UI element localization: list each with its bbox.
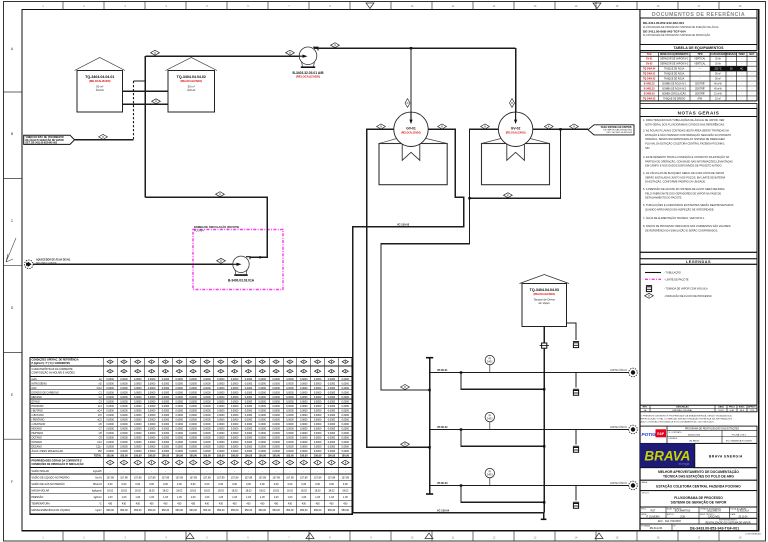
svg-text:0,00: 0,00 bbox=[246, 483, 251, 486]
svg-text:DE-3411.00-852-942-002-001: DE-3411.00-852-942-002-001 bbox=[643, 21, 684, 25]
svg-text:0,0000: 0,0000 bbox=[162, 387, 170, 390]
svg-text:0,0000: 0,0000 bbox=[272, 428, 280, 431]
svg-text:0,0000: 0,0000 bbox=[328, 428, 336, 431]
svg-text:430: 430 bbox=[274, 503, 279, 506]
svg-text:0,0000: 0,0000 bbox=[148, 400, 156, 403]
svg-text:0,0000: 0,0000 bbox=[286, 405, 294, 408]
svg-text:0,0000: 0,0000 bbox=[314, 396, 322, 399]
svg-text:1,03: 1,03 bbox=[205, 496, 210, 499]
condensate seal loop 02 bbox=[461, 430, 544, 447]
svg-text:OCTANO: OCTANO bbox=[32, 437, 42, 440]
svg-text:0,0000: 0,0000 bbox=[286, 441, 294, 444]
svg-text:MSm³/d: MSm³/d bbox=[93, 483, 102, 486]
tank TQ-3404.04.04.02 bbox=[166, 58, 218, 71]
svg-text:0,0000: 0,0000 bbox=[189, 441, 197, 444]
svg-text:PM: PM bbox=[98, 450, 102, 453]
svg-text:0,0000: 0,0000 bbox=[342, 446, 350, 449]
svg-text:18,02: 18,02 bbox=[176, 490, 183, 493]
svg-text:DET. DE-3411.00-853-943: DET. DE-3411.00-853-943 bbox=[606, 132, 632, 134]
svg-text:061234567-8: 061234567-8 bbox=[707, 511, 721, 513]
reference documents box bbox=[640, 10, 757, 19]
svg-text:3401: 3401 bbox=[487, 360, 493, 364]
svg-text:CTM: CTM bbox=[750, 410, 755, 412]
svg-text:0,0000: 0,0000 bbox=[120, 414, 128, 417]
svg-text:LEGENDAS: LEGENDAS bbox=[686, 260, 711, 264]
svg-text:0,0000: 0,0000 bbox=[106, 423, 114, 426]
svg-text:0,0000: 0,0000 bbox=[148, 387, 156, 390]
tank TQ-3404.04.04.01 bbox=[75, 58, 126, 71]
svg-text:0,0000: 0,0000 bbox=[176, 423, 184, 426]
svg-text:950,00: 950,00 bbox=[148, 509, 156, 512]
svg-text:0,0000: 0,0000 bbox=[217, 391, 225, 394]
svg-text:0,0000: 0,0000 bbox=[328, 400, 336, 403]
svg-text:APROV.: APROV. bbox=[748, 406, 756, 409]
svg-text:0,0000: 0,0000 bbox=[120, 419, 128, 422]
svg-text:TANQUE DE ÁGUA: TANQUE DE ÁGUA bbox=[664, 77, 685, 80]
composition data table bbox=[30, 358, 352, 515]
svg-text:DESCRIÇÃO: DESCRIÇÃO bbox=[676, 406, 689, 409]
svg-text:ESTAÇÃO COLETORA CENTRAL FAZEN: ESTAÇÃO COLETORA CENTRAL FAZENDA POCINHO bbox=[656, 483, 741, 488]
svg-text:0,0000: 0,0000 bbox=[328, 423, 336, 426]
svg-text:0,00: 0,00 bbox=[135, 483, 140, 486]
svg-text:ETANO: ETANO bbox=[32, 400, 40, 403]
left margin zone labels bbox=[4, 91, 23, 93]
svg-text:NONANO: NONANO bbox=[32, 441, 43, 444]
svg-text:0,0000: 0,0000 bbox=[245, 423, 253, 426]
flow indicator suction 1 bbox=[151, 50, 160, 55]
svg-text:430: 430 bbox=[302, 503, 307, 506]
svg-text:0,0000: 0,0000 bbox=[162, 450, 170, 453]
svg-text:VERTICAL: VERTICAL bbox=[694, 58, 706, 61]
wire drop to GV-01 bbox=[410, 48, 412, 112]
svg-text:100,00: 100,00 bbox=[245, 455, 253, 458]
svg-text:0,0000: 0,0000 bbox=[300, 423, 308, 426]
svg-text:CENTRÍF.: CENTRÍF. bbox=[695, 92, 706, 95]
svg-text:DATA: DATA bbox=[731, 513, 736, 516]
flow indicator GV-01 right bbox=[438, 124, 447, 129]
svg-text:0,0000: 0,0000 bbox=[231, 414, 239, 417]
svg-text:0,0000: 0,0000 bbox=[162, 409, 170, 412]
svg-text:0,0000: 0,0000 bbox=[134, 382, 142, 385]
svg-text:0,0000: 0,0000 bbox=[342, 405, 350, 408]
svg-text:0,0000: 0,0000 bbox=[120, 446, 128, 449]
legend: flow indicator bbox=[645, 293, 654, 298]
svg-text:1,03: 1,03 bbox=[163, 496, 168, 499]
svg-text:0,0000: 0,0000 bbox=[134, 405, 142, 408]
svg-text:0,0000: 0,0000 bbox=[231, 446, 239, 449]
svg-text:0,0000: 0,0000 bbox=[245, 387, 253, 390]
svg-text:0,0000: 0,0000 bbox=[176, 391, 184, 394]
svg-text:430: 430 bbox=[260, 503, 265, 506]
svg-text:0,0000: 0,0000 bbox=[120, 441, 128, 444]
flow indicator GV-01 left bbox=[377, 124, 386, 129]
svg-text:0,0000: 0,0000 bbox=[120, 391, 128, 394]
svg-text:0,0000: 0,0000 bbox=[245, 382, 253, 385]
svg-text:50 m³: 50 m³ bbox=[715, 73, 721, 76]
svg-text:0,0000: 0,0000 bbox=[314, 428, 322, 431]
svg-text:0,0000: 0,0000 bbox=[134, 437, 142, 440]
svg-text:0,0000: 0,0000 bbox=[148, 437, 156, 440]
svg-text:kgf/cm²: kgf/cm² bbox=[94, 496, 102, 499]
svg-text:0,0000: 0,0000 bbox=[231, 387, 239, 390]
svg-text:0,0000: 0,0000 bbox=[162, 432, 170, 435]
svg-text:0,0000: 0,0000 bbox=[272, 387, 280, 390]
svg-text:0,0000: 0,0000 bbox=[231, 419, 239, 422]
svg-text:0,0000: 0,0000 bbox=[134, 432, 142, 435]
svg-text:950,00: 950,00 bbox=[176, 509, 184, 512]
svg-text:0,0000: 0,0000 bbox=[259, 446, 267, 449]
svg-text:0,0000: 0,0000 bbox=[106, 382, 114, 385]
svg-text:AQUI CONTIDAS DESTINAM-SE EXCL: AQUI CONTIDAS DESTINAM-SE EXCLUSIVAMENTE… bbox=[641, 421, 715, 424]
svg-text:0,0000: 0,0000 bbox=[231, 423, 239, 426]
svg-text:PROJ.: PROJ. bbox=[641, 508, 647, 510]
svg-text:157,89: 157,89 bbox=[134, 476, 142, 479]
svg-text:MELHOR APROVEITAMENTO DE DOCUM: MELHOR APROVEITAMENTO DE DOCUMENTAÇÃO bbox=[658, 469, 739, 474]
svg-text:0,0000: 0,0000 bbox=[272, 437, 280, 440]
svg-text:0,0000: 0,0000 bbox=[189, 414, 197, 417]
svg-text:0,0000: 0,0000 bbox=[134, 396, 142, 399]
sample valve line 01 bbox=[575, 373, 577, 388]
svg-text:0,0000: 0,0000 bbox=[176, 405, 184, 408]
svg-text:0,0000: 0,0000 bbox=[314, 441, 322, 444]
svg-text:0,0000: 0,0000 bbox=[134, 441, 142, 444]
wire pump 2 suction bbox=[33, 263, 234, 265]
svg-text:0,0000: 0,0000 bbox=[231, 396, 239, 399]
svg-text:18,02: 18,02 bbox=[149, 490, 156, 493]
junction GV-02 bypass bbox=[559, 128, 561, 130]
svg-text:0,0000: 0,0000 bbox=[231, 378, 239, 381]
logos row bbox=[640, 426, 757, 443]
svg-text:0,0000: 0,0000 bbox=[245, 428, 253, 431]
svg-text:TÍTULO:: TÍTULO: bbox=[642, 492, 650, 495]
svg-text:18,02: 18,02 bbox=[301, 490, 308, 493]
svg-text:EMISSÃO ORIGINAL: EMISSÃO ORIGINAL bbox=[673, 409, 694, 412]
svg-text:950,00: 950,00 bbox=[272, 509, 280, 512]
svg-text:1,03: 1,03 bbox=[288, 496, 293, 499]
flow indicator pump2 suction bbox=[217, 258, 226, 263]
svg-text:GV-01: GV-01 bbox=[646, 59, 653, 61]
sample valve line 02 bbox=[575, 430, 577, 445]
steam generator GV-02 bbox=[482, 137, 507, 144]
svg-text:0,0000: 0,0000 bbox=[286, 419, 294, 422]
svg-text:18,02: 18,02 bbox=[121, 490, 128, 493]
svg-text:iC5: iC5 bbox=[98, 414, 102, 417]
svg-text:950,00: 950,00 bbox=[217, 509, 225, 512]
svg-text:DOCUMENTOS DE REFERÊNCIA: DOCUMENTOS DE REFERÊNCIA bbox=[652, 10, 745, 18]
svg-text:energia: energia bbox=[679, 462, 690, 466]
svg-text:0,00: 0,00 bbox=[315, 483, 320, 486]
svg-text:100,00: 100,00 bbox=[203, 455, 211, 458]
svg-text:(RELOCALIZADO): (RELOCALIZADO) bbox=[401, 132, 421, 135]
svg-text:0,0000: 0,0000 bbox=[106, 428, 114, 431]
svg-text:0,0000: 0,0000 bbox=[342, 387, 350, 390]
svg-text:18,02: 18,02 bbox=[259, 490, 266, 493]
svg-text:0,0000: 0,0000 bbox=[328, 409, 336, 412]
svg-text:0,0000: 0,0000 bbox=[272, 419, 280, 422]
svg-text:REPRODUÇÃO TOTAL OU PARCIAL SE: REPRODUÇÃO TOTAL OU PARCIAL SEM AUTORIZA… bbox=[641, 418, 733, 421]
svg-text:0,0000: 0,0000 bbox=[342, 450, 350, 453]
svg-text:TQ-3404.02: TQ-3404.02 bbox=[643, 77, 656, 80]
instrument PI-03 bbox=[485, 468, 494, 477]
svg-text:0,0000: 0,0000 bbox=[272, 441, 280, 444]
svg-text:0,0000: 0,0000 bbox=[272, 450, 280, 453]
svg-text:1,03: 1,03 bbox=[135, 496, 140, 499]
svg-text:0,0000: 0,0000 bbox=[245, 400, 253, 403]
svg-text:0,00: 0,00 bbox=[329, 483, 334, 486]
svg-text:3403: 3403 bbox=[487, 473, 493, 477]
svg-text:0,0000: 0,0000 bbox=[120, 423, 128, 426]
svg-text:0,0000: 0,0000 bbox=[328, 437, 336, 440]
svg-text:950,00: 950,00 bbox=[134, 509, 142, 512]
wire GV-02 bypass loop bbox=[470, 129, 561, 198]
svg-text:18,02: 18,02 bbox=[135, 490, 142, 493]
svg-text:10 m³: 10 m³ bbox=[715, 97, 721, 100]
svg-text:100,00: 100,00 bbox=[217, 455, 225, 458]
svg-text:18,02: 18,02 bbox=[342, 490, 349, 493]
svg-text:0,0000: 0,0000 bbox=[106, 387, 114, 390]
svg-text:157,89: 157,89 bbox=[217, 476, 225, 479]
svg-text:0,0000: 0,0000 bbox=[231, 437, 239, 440]
wire tank interconnection lower bbox=[123, 103, 169, 105]
flow indicator GV-02 right 2 bbox=[570, 124, 579, 129]
svg-text:0,0000: 0,0000 bbox=[328, 450, 336, 453]
svg-text:1,03: 1,03 bbox=[246, 496, 251, 499]
svg-text:0,0000: 0,0000 bbox=[148, 432, 156, 435]
svg-text:20 t/h: 20 t/h bbox=[715, 58, 721, 61]
wire GV-01 outlet right bbox=[353, 129, 544, 512]
svg-text:0,0000: 0,0000 bbox=[217, 432, 225, 435]
svg-text:MASSA MOLAR: MASSA MOLAR bbox=[32, 490, 50, 493]
svg-text:0,0000: 0,0000 bbox=[231, 432, 239, 435]
svg-text:0,0000: 0,0000 bbox=[217, 378, 225, 381]
svg-text:0,0000: 0,0000 bbox=[120, 409, 128, 412]
svg-text:0,0000: 0,0000 bbox=[272, 391, 280, 394]
wire suction riser from tanks bbox=[144, 56, 146, 197]
svg-text:0,0000: 0,0000 bbox=[231, 405, 239, 408]
svg-text:0,0000: 0,0000 bbox=[328, 414, 336, 417]
svg-text:18,02: 18,02 bbox=[232, 490, 239, 493]
in-line fitting on riser bbox=[542, 343, 547, 348]
svg-text:0,0000: 0,0000 bbox=[272, 414, 280, 417]
title block texts bbox=[640, 468, 757, 481]
svg-text:0,0000: 0,0000 bbox=[120, 450, 128, 453]
svg-text:PARA SISTEMA DE DISTRIB.: PARA SISTEMA DE DISTRIB. bbox=[601, 126, 633, 129]
svg-text:0,0000: 0,0000 bbox=[300, 446, 308, 449]
svg-text:100,00: 100,00 bbox=[189, 455, 197, 458]
svg-text:nC4: nC4 bbox=[97, 409, 102, 412]
svg-text:0,0000: 0,0000 bbox=[217, 400, 225, 403]
fold arrow left margin bbox=[6, 238, 16, 262]
svg-text:de Vapor: de Vapor bbox=[539, 301, 551, 305]
svg-text:1,03: 1,03 bbox=[218, 496, 223, 499]
svg-text:0,0000: 0,0000 bbox=[286, 382, 294, 385]
svg-text:MASSA ESPECÍFICA DO LÍQUIDO: MASSA ESPECÍFICA DO LÍQUIDO bbox=[32, 509, 71, 512]
svg-text:0,0000: 0,0000 bbox=[189, 387, 197, 390]
svg-text:0,0000: 0,0000 bbox=[134, 446, 142, 449]
svg-text:S/ ESCALA: S/ ESCALA bbox=[737, 510, 749, 513]
svg-text:0,0000: 0,0000 bbox=[120, 432, 128, 435]
svg-text:0,0000: 0,0000 bbox=[120, 382, 128, 385]
svg-text:157,89: 157,89 bbox=[259, 476, 267, 479]
svg-text:0,0000: 0,0000 bbox=[314, 450, 322, 453]
svg-text:0,0000: 0,0000 bbox=[106, 419, 114, 422]
instrument PI-01 bbox=[485, 355, 494, 364]
svg-text:0,0000: 0,0000 bbox=[134, 428, 142, 431]
svg-text:0,0000: 0,0000 bbox=[314, 378, 322, 381]
svg-text:430: 430 bbox=[191, 503, 196, 506]
flow indicator into header low bbox=[401, 442, 410, 447]
svg-text:iC4: iC4 bbox=[98, 405, 102, 408]
svg-text:0,0000: 0,0000 bbox=[245, 419, 253, 422]
svg-text:0,0000: 0,0000 bbox=[162, 446, 170, 449]
svg-text:0,0000: 0,0000 bbox=[203, 396, 211, 399]
svg-text:0,0000: 0,0000 bbox=[259, 450, 267, 453]
svg-text:0,0000: 0,0000 bbox=[120, 428, 128, 431]
svg-text:i-BUTANO: i-BUTANO bbox=[32, 409, 43, 412]
svg-text:0,0000: 0,0000 bbox=[148, 441, 156, 444]
svg-text:18,02: 18,02 bbox=[273, 490, 280, 493]
svg-text:0,0000: 0,0000 bbox=[272, 446, 280, 449]
svg-text:0,0000: 0,0000 bbox=[300, 419, 308, 422]
svg-text:0,0000: 0,0000 bbox=[203, 382, 211, 385]
svg-text:0,0000: 0,0000 bbox=[328, 432, 336, 435]
svg-text:n-BUTANO: n-BUTANO bbox=[32, 414, 44, 417]
svg-text:0,0000: 0,0000 bbox=[300, 400, 308, 403]
svg-text:0,0000: 0,0000 bbox=[342, 437, 350, 440]
svg-text:NOME DO EQUIPAMENTO: NOME DO EQUIPAMENTO bbox=[660, 53, 689, 56]
svg-text:1,03: 1,03 bbox=[232, 496, 237, 499]
svg-text:PROPANO: PROPANO bbox=[32, 405, 44, 408]
svg-text:0,0000: 0,0000 bbox=[259, 437, 267, 440]
svg-text:DECANO: DECANO bbox=[32, 446, 43, 449]
svg-text:0,0000: 0,0000 bbox=[314, 423, 322, 426]
svg-text:- TUBULAÇÃO: - TUBULAÇÃO bbox=[664, 272, 681, 275]
svg-text:0,0000: 0,0000 bbox=[328, 441, 336, 444]
svg-text:0,0000: 0,0000 bbox=[314, 446, 322, 449]
svg-text:TANQUE DE ÁGUA: TANQUE DE ÁGUA bbox=[664, 68, 685, 71]
svg-text:0,0000: 0,0000 bbox=[300, 441, 308, 444]
svg-text:157,89: 157,89 bbox=[245, 476, 253, 479]
svg-text:HEXANO: HEXANO bbox=[32, 428, 42, 431]
wire GV-01 feed left bbox=[367, 129, 430, 447]
svg-text:430: 430 bbox=[108, 503, 113, 506]
svg-text:0,0000: 0,0000 bbox=[189, 409, 197, 412]
svg-text:0,0000: 0,0000 bbox=[314, 414, 322, 417]
svg-text:0,0000: 0,0000 bbox=[217, 382, 225, 385]
svg-text:12 m³/h: 12 m³/h bbox=[714, 92, 723, 95]
svg-text:3402: 3402 bbox=[487, 417, 493, 421]
svg-text:0,0000: 0,0000 bbox=[176, 446, 184, 449]
svg-text:APROV.: APROV. bbox=[667, 513, 674, 516]
svg-text:430: 430 bbox=[316, 503, 321, 506]
svg-text:18,02: 18,02 bbox=[328, 490, 335, 493]
svg-text:EM CAMPO E NOS DADOS DISPONÍVE: EM CAMPO E NOS DADOS DISPONÍVEIS DE PROJ… bbox=[643, 164, 723, 168]
svg-text:0,0000: 0,0000 bbox=[217, 405, 225, 408]
svg-text:430: 430 bbox=[163, 503, 168, 506]
equipment table bbox=[640, 45, 757, 51]
svg-text:CENTRÍF.: CENTRÍF. bbox=[695, 82, 706, 85]
svg-text:0,0000: 0,0000 bbox=[134, 414, 142, 417]
svg-text:- TOMADA DE VAPOR COM VÁLVULA: - TOMADA DE VAPOR COM VÁLVULA bbox=[664, 287, 708, 290]
svg-text:0,0000: 0,0000 bbox=[314, 419, 322, 422]
svg-text:0,0000: 0,0000 bbox=[203, 391, 211, 394]
svg-text:18,02: 18,02 bbox=[218, 490, 225, 493]
svg-text:CONTINUAÇÃO: CONTINUAÇÃO bbox=[745, 533, 761, 536]
zone ruler ticks bbox=[62, 2, 64, 10]
svg-text:0,0000: 0,0000 bbox=[106, 378, 114, 381]
svg-text:O PRESENTE DESENHO É PROPRIEDA: O PRESENTE DESENHO É PROPRIEDADE DA BRAV… bbox=[641, 415, 733, 418]
svg-text:0,0000: 0,0000 bbox=[286, 400, 294, 403]
svg-text:0,00: 0,00 bbox=[191, 483, 196, 486]
svg-text:100,00: 100,00 bbox=[328, 455, 336, 458]
svg-text:100,00: 100,00 bbox=[286, 455, 294, 458]
svg-text:0,0000: 0,0000 bbox=[259, 419, 267, 422]
svg-text:0,0000: 0,0000 bbox=[203, 400, 211, 403]
svg-text:0,0000: 0,0000 bbox=[272, 405, 280, 408]
svg-text:COMPOSIÇÃO (% MOLAR) E VAZÕES: COMPOSIÇÃO (% MOLAR) E VAZÕES bbox=[32, 372, 76, 375]
svg-text:B-3400.03: B-3400.03 bbox=[644, 92, 655, 95]
svg-text:0,0000: 0,0000 bbox=[176, 382, 184, 385]
svg-text:0,00: 0,00 bbox=[218, 483, 223, 486]
svg-text:0,0000: 0,0000 bbox=[286, 450, 294, 453]
svg-text:VERTICAL: VERTICAL bbox=[694, 63, 706, 66]
svg-text:0,0000: 0,0000 bbox=[148, 396, 156, 399]
instrument PI-02 bbox=[485, 412, 494, 421]
svg-text:0,0000: 0,0000 bbox=[106, 396, 114, 399]
svg-text:0,0000: 0,0000 bbox=[217, 446, 225, 449]
svg-text:0,0000: 0,0000 bbox=[286, 387, 294, 390]
svg-text:0,0000: 0,0000 bbox=[300, 428, 308, 431]
svg-text:0,0000: 0,0000 bbox=[342, 432, 350, 435]
svg-text:0,0000: 0,0000 bbox=[328, 405, 336, 408]
svg-text:0,0000: 0,0000 bbox=[203, 437, 211, 440]
svg-text:0,0000: 0,0000 bbox=[314, 387, 322, 390]
svg-text:0,0000: 0,0000 bbox=[314, 437, 322, 440]
svg-text:0,0000: 0,0000 bbox=[217, 428, 225, 431]
svg-text:E&P: E&P bbox=[657, 432, 665, 436]
svg-text:0,0000: 0,0000 bbox=[259, 428, 267, 431]
svg-text:50 m³: 50 m³ bbox=[715, 77, 721, 80]
svg-text:0,0000: 0,0000 bbox=[314, 405, 322, 408]
svg-text:430: 430 bbox=[233, 503, 238, 506]
svg-text:AQUECEDOR DE ÁGUA DE INJ.: AQUECEDOR DE ÁGUA DE INJ. bbox=[36, 259, 71, 262]
svg-text:SISTEMA DE GERAÇÃO DE VAPOR: SISTEMA DE GERAÇÃO DE VAPOR bbox=[671, 500, 727, 505]
svg-text:RGT: RGT bbox=[651, 511, 656, 513]
svg-text:0,0000: 0,0000 bbox=[189, 400, 197, 403]
off-page connector flag: water make-up inlet bbox=[24, 135, 75, 144]
svg-text:PRESSÃO: PRESSÃO bbox=[726, 53, 737, 56]
svg-text:0,0000: 0,0000 bbox=[176, 396, 184, 399]
svg-text:100,00: 100,00 bbox=[162, 455, 170, 458]
svg-text:0,0000: 0,0000 bbox=[342, 400, 350, 403]
svg-text:VINDO DO SIST. DE TRATAMENTO: VINDO DO SIST. DE TRATAMENTO bbox=[26, 136, 64, 139]
legend: pipe line bbox=[645, 272, 661, 274]
svg-text:0,0000: 0,0000 bbox=[217, 414, 225, 417]
svg-text:MLS: MLS bbox=[740, 410, 745, 412]
svg-text:950,00: 950,00 bbox=[120, 509, 128, 512]
svg-text:157,89: 157,89 bbox=[176, 476, 184, 479]
svg-text:VP-80-01: VP-80-01 bbox=[437, 369, 448, 372]
svg-text:0,0000: 0,0000 bbox=[148, 409, 156, 412]
svg-text:S/N.: S/N. bbox=[643, 146, 650, 150]
svg-text:0,00: 0,00 bbox=[163, 483, 168, 486]
svg-text:0,0000: 0,0000 bbox=[120, 400, 128, 403]
steam supply line 02 bbox=[430, 429, 629, 431]
svg-text:UNIDADE:: UNIDADE: bbox=[669, 437, 679, 440]
steam generator GV-01 bbox=[379, 137, 402, 144]
legend box bbox=[640, 252, 757, 258]
svg-text:PQ-3404: PQ-3404 bbox=[194, 229, 204, 232]
